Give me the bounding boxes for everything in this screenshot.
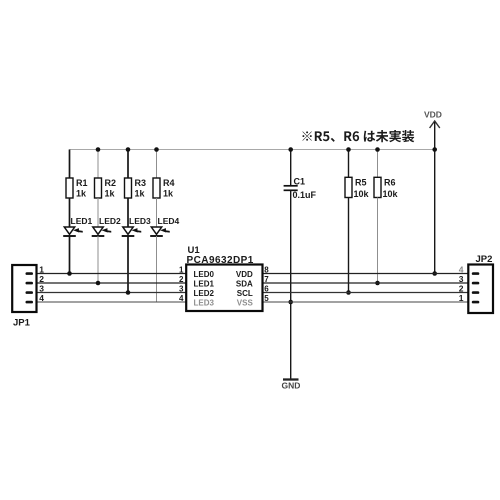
svg-text:2: 2 [39,274,44,284]
wire VDD top rail [70,149,435,151]
junction rail/R5 [346,147,351,152]
svg-text:JP1: JP1 [13,318,31,329]
power VDD symbol [424,110,442,129]
junction C1/VSS row [288,300,293,305]
svg-text:LED3: LED3 [194,298,215,307]
wire row3 left [33,292,186,294]
wire row4 right [263,301,475,303]
wire VDD column [434,122,436,274]
svg-text:4: 4 [459,265,464,275]
resistor R1 [66,178,88,199]
wire column R5 upper [348,150,350,178]
junction R5/SCL [346,290,351,295]
svg-text:1: 1 [39,265,44,275]
connector JP2 [468,254,493,313]
junction rail/R2 [96,147,101,152]
wire row4 left [33,301,186,303]
wire column R2/LED2 upper [97,150,99,179]
svg-text:R5: R5 [355,178,367,188]
capacitor C1 [284,150,317,200]
resistor R3 [125,178,147,199]
wire row1 left [33,273,186,275]
svg-text:1: 1 [179,266,184,275]
wire row2 right [263,282,475,284]
svg-text:SCL: SCL [237,289,253,298]
svg-text:R1: R1 [76,178,88,188]
svg-text:GND: GND [282,381,301,391]
LED LED3 [122,216,151,236]
svg-text:VDD: VDD [424,110,442,120]
op IC U1 PCA9632DP1 [186,245,262,311]
svg-text:VDD: VDD [236,270,253,279]
svg-text:10k: 10k [354,189,370,199]
svg-text:SDA: SDA [236,280,253,289]
LED LED2 [92,216,121,236]
svg-text:3: 3 [39,284,44,294]
svg-text:JP2: JP2 [476,254,493,265]
wire row2 left [33,282,186,284]
junction rail/C1 [288,147,293,152]
wire column R3/LED3 upper [127,150,129,179]
svg-text:1k: 1k [163,188,174,198]
wire R3 to LED3 [127,198,129,227]
resistor R4 [153,178,175,199]
svg-text:LED1: LED1 [194,280,215,289]
svg-text:4: 4 [39,293,44,303]
svg-text:2: 2 [179,275,184,284]
wire R4 to LED4 [156,198,158,227]
junction rail/R6 [375,147,380,152]
svg-text:VSS: VSS [237,298,254,307]
wire column R4/LED4 upper [156,150,158,179]
svg-text:5: 5 [264,294,269,303]
junction LED1/row1 [67,271,72,276]
LED LED1 [63,216,92,236]
svg-text:7: 7 [264,275,269,284]
junction LED3/row3 [126,290,131,295]
wire LED1 to pin1 row [69,236,71,274]
svg-text:0.1uF: 0.1uF [293,190,317,200]
resistor R5 [345,177,370,199]
junction R6/SDA [375,281,380,286]
svg-text:4: 4 [179,294,184,303]
resistor R6 [374,177,399,199]
svg-text:1k: 1k [76,188,87,198]
svg-text:LED2: LED2 [194,289,215,298]
junction rail/R4 [154,147,159,152]
svg-text:PCA9632DP1: PCA9632DP1 [187,255,254,266]
svg-text:1: 1 [459,293,464,303]
junction rail/VDD [432,147,437,152]
junction rail/R3 [126,147,131,152]
svg-text:6: 6 [264,285,269,294]
connector JP1 [12,265,36,329]
ground [282,380,301,391]
wire row1 right [263,273,475,275]
svg-text:LED3: LED3 [129,216,151,226]
svg-text:LED0: LED0 [194,270,215,279]
wire column R6 upper [377,150,379,178]
resistor R2 [95,178,117,199]
svg-text:R2: R2 [105,178,117,188]
svg-text:LED1: LED1 [71,216,93,226]
wire LED3 to pin3 row [127,236,129,293]
svg-text:R6: R6 [384,178,396,188]
svg-text:3: 3 [459,274,464,284]
wire LED4 to pin4 row [156,236,158,302]
svg-text:10k: 10k [383,189,399,199]
wire row3 right [263,292,475,294]
svg-text:C1: C1 [294,177,306,187]
wire LED2 to pin2 row [97,236,99,283]
note R5 R6 not mounted [302,130,414,142]
wire column R1/LED1 upper [69,150,71,179]
svg-text:1k: 1k [105,188,116,198]
junction VDD/pin8 row [432,271,437,276]
svg-text:1k: 1k [135,188,146,198]
svg-text:2: 2 [459,284,464,294]
wire R6 to SDA row [377,198,379,284]
wire C1 to GND [290,190,292,379]
svg-text:LED2: LED2 [99,216,121,226]
LED LED4 [150,216,179,236]
svg-text:3: 3 [179,285,184,294]
junction LED2/row2 [96,281,101,286]
wire R1 to LED1 [69,198,71,227]
svg-text:R3: R3 [135,178,147,188]
svg-text:8: 8 [264,266,269,275]
wire R5 to SCL row [348,198,350,293]
wire R2 to LED2 [97,198,99,227]
svg-text:LED4: LED4 [158,216,180,226]
svg-text:R4: R4 [163,178,175,188]
